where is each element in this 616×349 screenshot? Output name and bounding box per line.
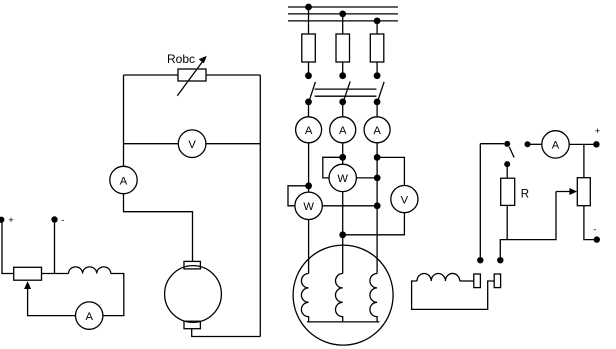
svg-text:V: V [401, 194, 409, 206]
terminal - [51, 216, 57, 222]
wire W2 down to motor [308, 220, 310, 274]
wire + terminal down to potentiometer [2, 220, 14, 274]
wire switch to ammeter A5 [376, 102, 378, 117]
wire fuse F1 to switch [308, 62, 310, 76]
wire - terminal down [54, 220, 56, 274]
svg-text:-: - [593, 225, 596, 236]
node phase B / voltmeter return [339, 231, 346, 238]
wire V2 return to phase B [343, 213, 405, 235]
wire left rail [123, 75, 125, 166]
wire W2 voltage loop [288, 186, 309, 206]
wire rotor winding to brush B1 [460, 280, 474, 282]
svg-text:W: W [303, 201, 314, 213]
wire wiper down to rotor bus [500, 192, 556, 258]
svg-text:V: V [188, 139, 196, 151]
resistor R [501, 178, 515, 205]
svg-text:A: A [305, 125, 313, 137]
bus line L2 [288, 13, 398, 15]
bus line L1 [288, 6, 398, 8]
wire rheostat to right rail [206, 74, 260, 76]
wire W1 down to motor [342, 192, 344, 274]
svg-text:A: A [552, 140, 560, 152]
wire top-left to rheostat [124, 74, 179, 76]
brush B1 [474, 274, 481, 288]
ammeter A1 [110, 166, 137, 193]
node rotor brush 2 [497, 257, 503, 263]
wire field coil to ammeter A2 right [103, 274, 124, 316]
stator coil phase B [336, 274, 343, 322]
svg-text:A: A [339, 125, 347, 137]
wire left rail top [480, 143, 504, 145]
voltmeter V1 [178, 130, 206, 158]
node rotor brush 1 [477, 257, 483, 263]
wire potentiometer to field coil [42, 273, 69, 275]
wire fuse F2 to switch [342, 62, 344, 76]
wire rotor winding return loop [412, 281, 495, 309]
svg-text:A: A [373, 125, 381, 137]
wire W1 voltage coil to phase C [356, 177, 377, 179]
potentiometer P1 [14, 267, 42, 280]
rheostat Robc [177, 56, 207, 96]
field winding L1 [69, 267, 111, 274]
stator coil phase C [370, 274, 377, 322]
induction machine M2 [293, 245, 393, 345]
ammeter A3 [296, 117, 322, 143]
wire ammeter A2 to wiper [28, 286, 76, 316]
wire right rail [259, 75, 261, 337]
fuse F2 [336, 34, 350, 62]
switch gang link bars [315, 88, 377, 90]
wire W1 voltage loop [323, 157, 343, 178]
ammeter A5 [364, 117, 390, 143]
switch Q upper terminal dots [305, 72, 312, 79]
node phase B / W1 voltage coil [339, 154, 346, 161]
svg-text:+: + [8, 215, 14, 226]
wire L2 tap to fuse [342, 14, 344, 34]
switch blade 2 [344, 81, 350, 99]
wire machine bottom brush to right rail [192, 329, 261, 337]
wire fuse F3 to switch [376, 62, 378, 76]
terminal - right [594, 236, 600, 242]
node phase A / W2 voltage coil [305, 182, 312, 189]
wattmeter W2 [295, 192, 322, 219]
switch S1 lower terminal [504, 161, 510, 167]
wire P2 bottom to - terminal [584, 206, 594, 240]
dc machine M1 [165, 261, 222, 328]
switch S1 terminal [504, 141, 510, 147]
node L2 tap [339, 11, 346, 18]
node phase C / W2 coil [374, 202, 381, 209]
voltmeter V2 [391, 186, 418, 213]
switch lower terminal dots [305, 99, 312, 106]
wire phase B down to wattmeter W1 [342, 143, 344, 164]
stator coil phase A [301, 274, 308, 322]
ammeter A2 [76, 302, 103, 329]
rotor winding L2 [417, 273, 460, 281]
ammeter A4 [330, 117, 356, 143]
node phase C / W1 coil [374, 175, 381, 182]
wire to ammeter A6 [528, 143, 542, 145]
switch blade 1 [310, 82, 316, 100]
wire switch to ammeter A3 [308, 102, 310, 117]
fuse F3 [370, 34, 384, 62]
wire V2 branch [377, 157, 404, 185]
wire L1 tap to fuse [308, 7, 310, 34]
star point bar [307, 321, 379, 323]
wiper arrow of P2 [556, 191, 573, 193]
wire L3 tap to fuse [376, 21, 378, 34]
switch blade 3 [378, 82, 384, 100]
wire R bottom to bottom bus [506, 205, 508, 239]
wire switch to ammeter A4 [342, 102, 344, 117]
svg-text:A: A [120, 175, 128, 187]
wire W2 voltage coil to phase C [322, 205, 377, 207]
potentiometer P2 [577, 178, 590, 206]
svg-text:R: R [521, 189, 529, 201]
svg-text:W: W [337, 173, 348, 185]
svg-text:Robc: Robc [167, 52, 195, 66]
bus line L3 [288, 20, 398, 22]
wire switch to resistor R [506, 167, 508, 178]
wire phase C down to motor [376, 143, 378, 274]
wire left rail down [479, 144, 481, 257]
wire ammeter A6 to + terminal [569, 143, 596, 145]
svg-text:-: - [61, 215, 64, 226]
fuse F1 [302, 34, 316, 62]
brush B2 [494, 274, 500, 288]
wiper arrow of P1 [24, 281, 31, 289]
wire voltmeter branch left [124, 143, 179, 145]
svg-text:A: A [85, 311, 93, 323]
wattmeter W1 [329, 164, 356, 191]
terminal + [0, 217, 4, 223]
node ammeter A6 left terminal [525, 141, 531, 147]
switch S1 blade [509, 147, 514, 158]
ammeter A6 [542, 131, 569, 158]
svg-text:+: + [595, 126, 601, 137]
wire branch to potentiometer P2 [583, 144, 585, 177]
node phase C / V2 [374, 154, 381, 161]
node L1 tap [305, 4, 312, 11]
wire phase A down to wattmeter W2 [308, 143, 310, 193]
wire voltmeter to right rail [206, 143, 260, 145]
wire ammeter to machine top brush [124, 194, 193, 262]
node L3 tap [374, 18, 381, 25]
terminal + right [593, 141, 599, 147]
